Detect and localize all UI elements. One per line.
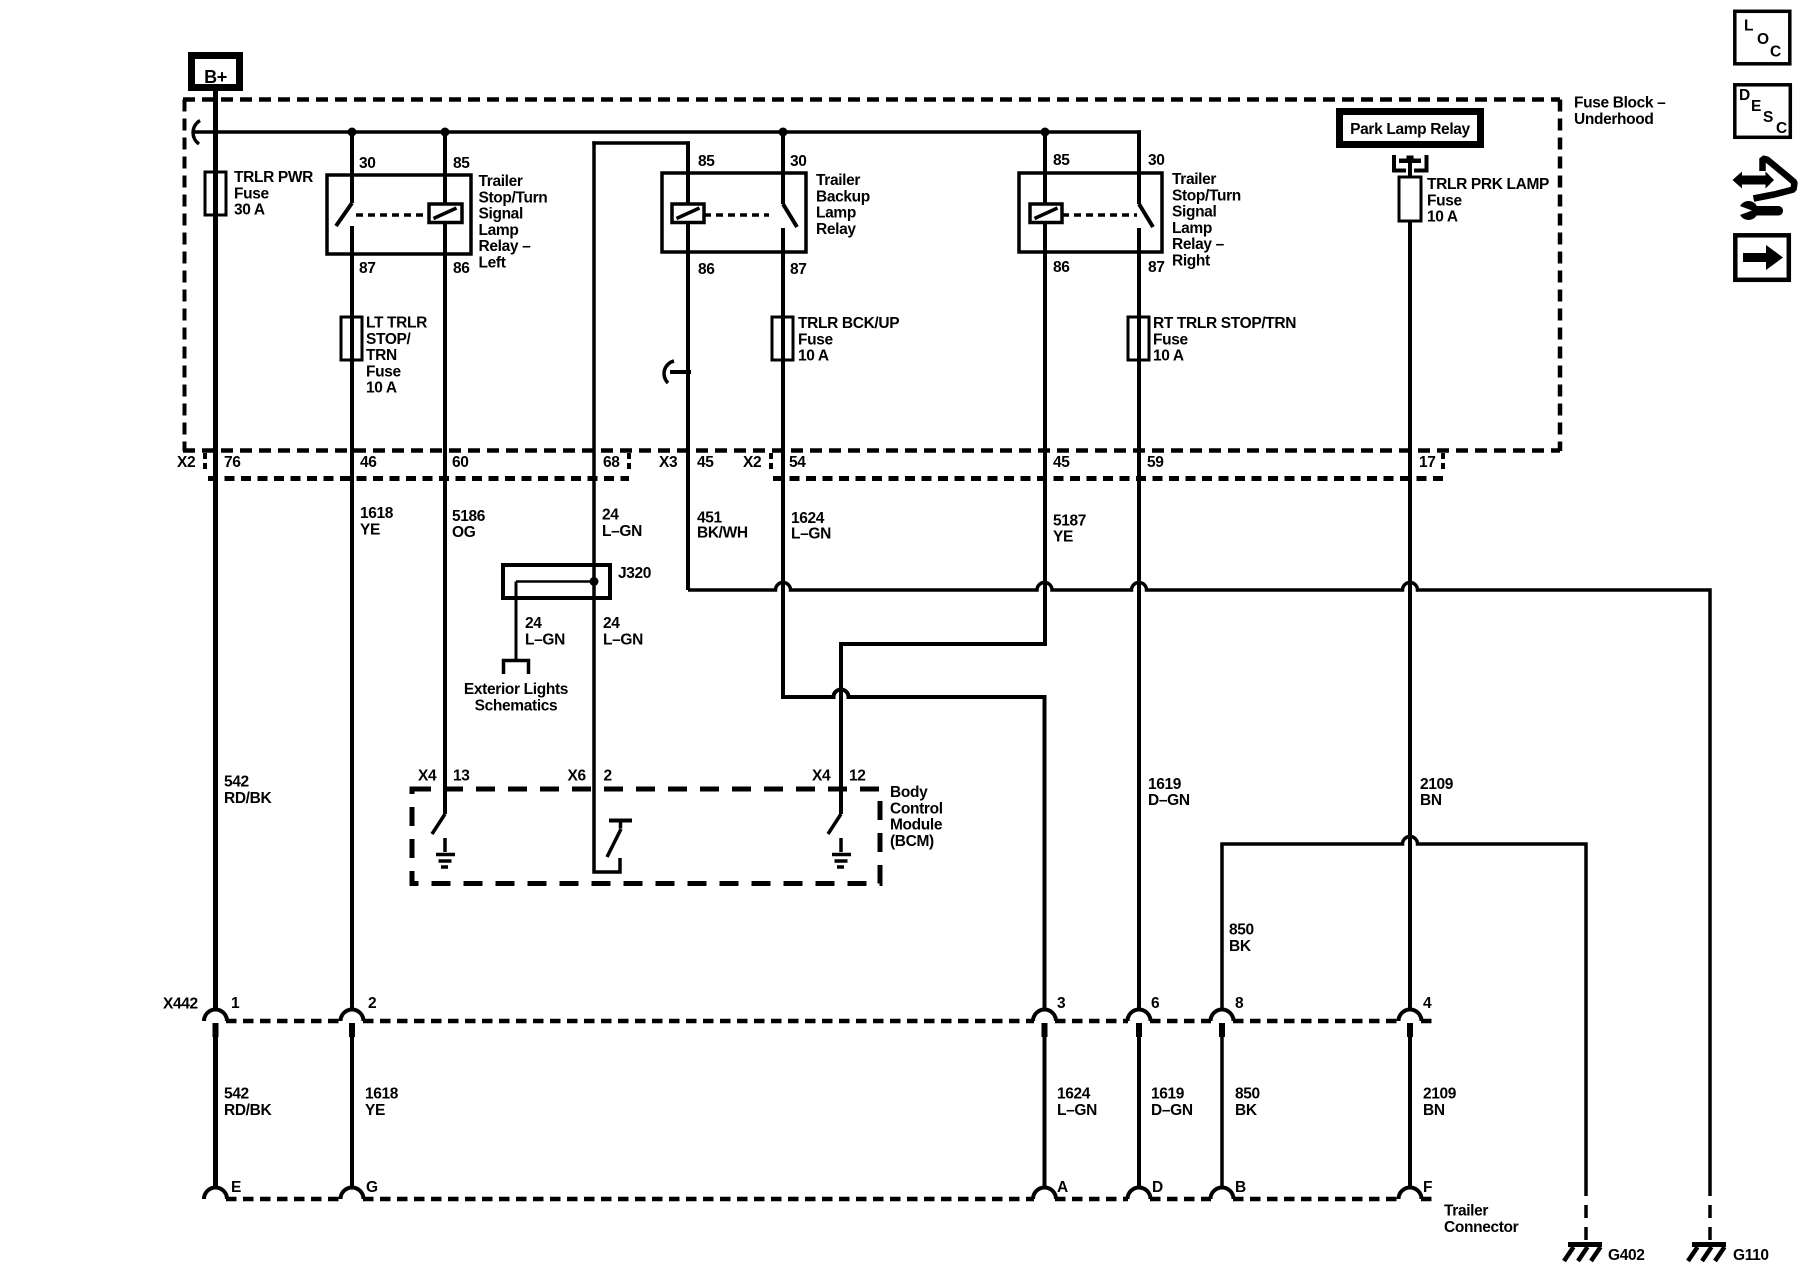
- svg-text:Fuse: Fuse: [798, 331, 834, 348]
- wire: J320 internal splice branch: [516, 580, 594, 583]
- svg-text:OG: OG: [452, 524, 476, 541]
- wire: backup relay pin 30 drop from bus: [781, 132, 785, 204]
- svg-text:G110: G110: [1733, 1247, 1769, 1264]
- svg-text:Right: Right: [1172, 253, 1210, 270]
- svg-text:TRN: TRN: [366, 347, 397, 364]
- svg-text:BK: BK: [1229, 938, 1252, 955]
- svg-text:Fuse: Fuse: [366, 363, 402, 380]
- connector X442 pin 4 arc: [1399, 1010, 1422, 1022]
- wire: 451 BK/WH horizontal run y=590 hopping 4 wires then down to G110: [688, 583, 1710, 1183]
- svg-text:A: A: [1057, 1179, 1068, 1196]
- svg-text:86: 86: [698, 261, 715, 278]
- svg-text:850: 850: [1229, 922, 1254, 939]
- svg-text:X4: X4: [418, 768, 437, 785]
- BCM internal switch at X4-13 blade: [432, 814, 445, 834]
- svg-text:1618: 1618: [360, 505, 394, 522]
- svg-text:13: 13: [453, 768, 470, 785]
- svg-text:30 A: 30 A: [234, 202, 265, 219]
- svg-text:24: 24: [602, 507, 619, 524]
- icon: next-page arrow glyph: [1743, 253, 1767, 262]
- wire: 1619 D-GN right relay pin 87 through fuse down to X442 pin 6: [1137, 228, 1141, 1010]
- svg-text:Stop/Turn: Stop/Turn: [1172, 187, 1241, 204]
- wire: 850 BK from corner right to G402, hop over 2109 BN: [1220, 837, 1586, 1183]
- connector X2 dotted row line left section: [208, 476, 629, 481]
- symbol: off-page fork to Exterior Lights Schematics: [504, 661, 529, 675]
- relay K2 dashed actuating link: [704, 213, 769, 217]
- svg-text:X442: X442: [163, 996, 198, 1013]
- svg-text:X2: X2: [177, 454, 195, 471]
- svg-text:Trailer: Trailer: [816, 172, 860, 189]
- trailer connector pin G arc: [341, 1188, 364, 1200]
- svg-text:Signal: Signal: [1172, 204, 1216, 221]
- svg-text:2: 2: [604, 768, 612, 785]
- svg-text:O: O: [1757, 31, 1769, 48]
- svg-text:Stop/Turn: Stop/Turn: [479, 189, 548, 206]
- wire: left relay pin 86 / 5186 OG down to BCM X4-13: [443, 221, 447, 814]
- relay K2 coil box on pin 85: [672, 204, 704, 223]
- fuse F1 TRLR PWR 30A body: [205, 172, 226, 215]
- relay K3 coil box on pin 85: [1030, 204, 1062, 223]
- svg-text:L–GN: L–GN: [525, 631, 565, 648]
- svg-text:30: 30: [790, 153, 807, 170]
- connector X2 separator after pin 17: [1441, 453, 1445, 473]
- svg-text:D–GN: D–GN: [1148, 792, 1190, 809]
- svg-text:Lamp: Lamp: [816, 205, 856, 222]
- svg-text:10 A: 10 A: [1427, 209, 1458, 226]
- relay K3 coil diagonal: [1035, 208, 1058, 219]
- wire: 850 BK down to X442 pin 8: [1220, 844, 1224, 1010]
- wire: left relay pin 85 drop from bus: [443, 132, 447, 205]
- svg-text:10 A: 10 A: [798, 348, 829, 365]
- svg-text:Left: Left: [479, 255, 506, 272]
- svg-text:24: 24: [525, 615, 542, 632]
- wire: left relay pin 87 / 1618 YE down through LT fuse to X442 pin 2: [350, 226, 354, 1010]
- relay K3 dashed actuating link: [1062, 213, 1137, 217]
- relay K1 coil diagonal: [434, 208, 457, 219]
- ground G110 chassis symbol: [1692, 1242, 1726, 1247]
- svg-text:G402: G402: [1608, 1247, 1645, 1264]
- svg-text:Trailer: Trailer: [479, 173, 523, 190]
- svg-text:Schematics: Schematics: [475, 697, 558, 714]
- svg-text:85: 85: [1053, 152, 1070, 169]
- svg-text:E: E: [231, 1179, 241, 1196]
- wire: 1619 D-GN from X442 pin 6 to trailer connector D: [1137, 1037, 1141, 1188]
- wire: left relay pin 30 drop from bus: [350, 132, 354, 203]
- svg-text:BK/WH: BK/WH: [697, 524, 748, 541]
- svg-text:F: F: [1423, 1179, 1432, 1196]
- relay K2 Trailer Backup Lamp Relay box: [662, 173, 806, 252]
- svg-text:C: C: [1776, 120, 1787, 137]
- wire: B+ feed 542 RD/BK vertical x=215: [213, 91, 218, 1010]
- symbol: take-out hook below backup relay pin 86: [670, 370, 691, 374]
- svg-text:Trailer: Trailer: [1172, 171, 1216, 188]
- trailer connector pin A arc: [1033, 1188, 1056, 1200]
- wire: main B+ bus y=132 from B+ to right relay pin 30: [194, 130, 1141, 134]
- power node B+ box: [192, 56, 240, 88]
- ground: BCM internal ground at X4-13: [436, 853, 455, 857]
- connector X2 separator after pin 68: [627, 453, 631, 473]
- trailer connector row dashed line: [226, 1197, 1434, 1202]
- svg-text:X6: X6: [568, 768, 587, 785]
- svg-text:Relay –: Relay –: [1172, 236, 1225, 253]
- svg-text:Trailer: Trailer: [1444, 1203, 1488, 1220]
- node: bus junction dot at backup relay pin 30: [779, 128, 788, 137]
- svg-text:STOP/: STOP/: [366, 331, 412, 348]
- wire: right relay pin 85 drop from bus: [1043, 132, 1047, 205]
- svg-text:Relay –: Relay –: [479, 238, 532, 255]
- svg-text:85: 85: [698, 153, 715, 170]
- svg-text:24: 24: [603, 615, 620, 632]
- BCM internal switch at X6-2 blade: [607, 829, 621, 857]
- ground: BCM internal ground at X4-12: [832, 853, 851, 857]
- node: bus junction dot at right relay pin 85: [1041, 128, 1050, 137]
- svg-text:Relay: Relay: [816, 221, 856, 238]
- svg-text:S: S: [1763, 109, 1773, 126]
- wire: park lamp relay output stem: [1408, 163, 1412, 177]
- module BCM dashed box: [412, 789, 880, 884]
- svg-text:RD/BK: RD/BK: [224, 1102, 272, 1119]
- svg-text:RD/BK: RD/BK: [224, 790, 272, 807]
- svg-text:RT TRLR STOP/TRN: RT TRLR STOP/TRN: [1153, 315, 1296, 332]
- symbol: park lamp relay socket bracket right: [1414, 155, 1427, 171]
- svg-text:Park Lamp Relay: Park Lamp Relay: [1350, 121, 1470, 138]
- svg-text:BK: BK: [1235, 1102, 1258, 1119]
- svg-text:76: 76: [224, 454, 241, 471]
- svg-text:Fuse: Fuse: [234, 185, 270, 202]
- svg-text:60: 60: [452, 454, 469, 471]
- svg-text:542: 542: [224, 1086, 249, 1103]
- wire: right relay pin 30 drop from bus corner: [1137, 130, 1141, 204]
- relay K3 switch blade pin30-pin87: [1139, 204, 1153, 227]
- wire: 2109 BN from X442 pin 4 to trailer connector F: [1408, 1037, 1412, 1188]
- splice J320 box: [503, 565, 610, 598]
- BCM internal switch at X4-13 contact stub: [443, 838, 447, 852]
- svg-text:1624: 1624: [1057, 1086, 1091, 1103]
- icon: double arrow of service icon: [1733, 172, 1775, 189]
- svg-text:87: 87: [790, 261, 807, 278]
- wire: backup relay pin 86 / 451 BK-WH down then right (wire A) with hops: [686, 221, 690, 590]
- node: bus junction dot at left relay pin 30: [348, 128, 357, 137]
- relay K2 switch blade pin30-pin87: [783, 204, 797, 227]
- wire: 1618 YE from X442 pin 2 to trailer connector G: [350, 1037, 354, 1188]
- fuse F5 TRLR PRK LAMP 10A body: [1399, 177, 1421, 221]
- svg-text:YE: YE: [365, 1102, 385, 1119]
- connector X2 separator before pin 54: [769, 453, 773, 473]
- wire: backup relay pin 85 drop from branch: [686, 141, 690, 205]
- svg-text:2: 2: [368, 995, 376, 1012]
- svg-text:1: 1: [231, 995, 240, 1012]
- svg-text:12: 12: [849, 768, 866, 785]
- svg-text:10 A: 10 A: [366, 380, 397, 397]
- svg-text:Fuse: Fuse: [1427, 192, 1463, 209]
- svg-text:2109: 2109: [1420, 776, 1454, 793]
- svg-text:87: 87: [359, 260, 376, 277]
- BCM internal switch at X4-12 contact stub: [839, 838, 843, 852]
- wire: 24 L-GN branch from J320 down to Exterior Lights Schematics: [515, 582, 518, 660]
- svg-text:L–GN: L–GN: [791, 525, 831, 542]
- svg-text:6: 6: [1151, 995, 1160, 1012]
- icon: LOC legend box: [1735, 11, 1790, 64]
- icon: DESC legend box: [1735, 85, 1791, 138]
- wire: 1624 L-GN from X442 pin 3 to trailer connector A: [1043, 1037, 1047, 1188]
- svg-text:LT TRLR: LT TRLR: [366, 315, 427, 332]
- svg-text:Module: Module: [890, 817, 943, 834]
- svg-text:TRLR PWR: TRLR PWR: [234, 169, 313, 186]
- wire: 1624 L-GN backup relay pin 87 through fuse down, right, down to X442 pin 3: [783, 228, 1045, 1010]
- svg-text:3: 3: [1057, 995, 1066, 1012]
- relay K1 switch blade pin30-pin87: [336, 203, 352, 226]
- relay K1 Trailer Stop/Turn Signal Lamp Relay - Left box: [327, 175, 471, 254]
- fuse block underhood dashed border bottom: [183, 448, 1560, 453]
- svg-text:(BCM): (BCM): [890, 833, 934, 850]
- svg-text:X2: X2: [743, 454, 761, 471]
- wire: 2109 BN through TRLR PRK LAMP fuse down to X442 pin 4: [1408, 221, 1412, 1010]
- svg-text:Underhood: Underhood: [1574, 111, 1654, 128]
- svg-text:Control: Control: [890, 800, 943, 817]
- svg-text:TRLR BCK/UP: TRLR BCK/UP: [798, 315, 899, 332]
- svg-text:Fuse Block –: Fuse Block –: [1574, 95, 1666, 112]
- wire: control branch y=143 from pin 68 riser to backup relay pin 85: [592, 141, 689, 145]
- svg-text:1619: 1619: [1151, 1086, 1185, 1103]
- svg-text:59: 59: [1147, 454, 1164, 471]
- fuse F2 LT TRLR STOP/TRN 10A body: [341, 317, 362, 360]
- svg-text:YE: YE: [1053, 528, 1073, 545]
- svg-text:BN: BN: [1420, 792, 1442, 809]
- svg-text:G: G: [366, 1179, 378, 1196]
- BCM internal switch at X4-12 blade: [828, 814, 841, 834]
- svg-text:D: D: [1739, 87, 1750, 104]
- svg-text:1624: 1624: [791, 510, 825, 527]
- trailer connector pin E arc: [204, 1188, 227, 1200]
- svg-text:B: B: [1235, 1179, 1246, 1196]
- svg-text:86: 86: [1053, 259, 1070, 276]
- svg-text:Lamp: Lamp: [1172, 220, 1212, 237]
- fuse block underhood dashed border top: [183, 97, 1560, 102]
- svg-text:85: 85: [453, 155, 470, 172]
- relay K1 coil box on pin 85: [429, 204, 462, 223]
- svg-text:30: 30: [1148, 152, 1165, 169]
- svg-text:1618: 1618: [365, 1086, 399, 1103]
- relay K2 coil diagonal: [677, 208, 700, 219]
- icon: curved arrow outline of service icon: [1754, 159, 1795, 199]
- wire: dashed ground lead into G402: [1584, 1183, 1588, 1241]
- svg-text:Backup: Backup: [816, 188, 870, 205]
- component: Park Lamp Relay labeled box: [1340, 112, 1481, 145]
- wire: 850 BK from X442 pin 8 to trailer connector B: [1220, 1037, 1224, 1188]
- trailer connector pin F arc: [1399, 1188, 1422, 1200]
- svg-text:10 A: 10 A: [1153, 348, 1184, 365]
- BCM internal switch at X6-2 T contact: [609, 819, 632, 823]
- svg-text:850: 850: [1235, 1086, 1260, 1103]
- trailer connector pin D arc: [1128, 1188, 1151, 1200]
- svg-text:45: 45: [1053, 454, 1070, 471]
- svg-text:X3: X3: [659, 454, 678, 471]
- connector X442 pin 2 arc: [341, 1010, 364, 1022]
- svg-text:5187: 5187: [1053, 512, 1086, 529]
- relay K1 dashed actuating link: [356, 213, 429, 217]
- svg-text:L: L: [1744, 18, 1753, 35]
- svg-text:E: E: [1751, 98, 1761, 115]
- svg-text:C: C: [1770, 44, 1781, 61]
- svg-text:Exterior Lights: Exterior Lights: [464, 681, 568, 698]
- connector X2 separator before pin 76: [203, 453, 207, 473]
- svg-text:5186: 5186: [452, 508, 486, 525]
- svg-text:17: 17: [1419, 454, 1436, 471]
- icon: wrench of service icon: [1739, 201, 1758, 220]
- svg-text:45: 45: [697, 454, 714, 471]
- fuse block underhood dashed border left: [183, 100, 187, 452]
- wire: 542 RD/BK from X442 pin 1 to trailer connector E: [213, 1037, 218, 1188]
- svg-text:YE: YE: [360, 521, 380, 538]
- svg-text:54: 54: [789, 454, 806, 471]
- svg-text:46: 46: [360, 454, 377, 471]
- svg-text:542: 542: [224, 774, 249, 791]
- svg-text:L–GN: L–GN: [603, 631, 643, 648]
- svg-text:30: 30: [359, 155, 376, 172]
- relay K3 Trailer Stop/Turn Signal Lamp Relay - Right box: [1019, 173, 1162, 252]
- connector X442 row dashed line: [226, 1019, 1434, 1024]
- wire: right relay pin 86 / 5187 YE down, left, down to BCM X4-12: [841, 221, 1045, 814]
- symbol: take-out hook at B+ bus junction: [193, 121, 200, 145]
- svg-text:86: 86: [453, 260, 470, 277]
- svg-text:1619: 1619: [1148, 776, 1182, 793]
- fuse F3 TRLR BCK/UP 10A body: [772, 317, 793, 360]
- connector X442 pin 6 arc: [1128, 1010, 1151, 1022]
- svg-text:TRLR PRK LAMP: TRLR PRK LAMP: [1427, 176, 1549, 193]
- svg-text:68: 68: [603, 454, 620, 471]
- connector X442 pin 1 arc: [204, 1010, 227, 1022]
- svg-text:Body: Body: [890, 784, 928, 801]
- svg-text:L–GN: L–GN: [1057, 1102, 1097, 1119]
- svg-text:D–GN: D–GN: [1151, 1102, 1193, 1119]
- node: bus junction dot at left relay pin 85: [441, 128, 450, 137]
- svg-text:J320: J320: [618, 565, 651, 582]
- svg-text:Connector: Connector: [1444, 1219, 1519, 1236]
- fuse block underhood dashed border right: [1558, 100, 1563, 452]
- wire: 24 L-GN riser pin 68 through J320 to BCM X6-2: [594, 141, 620, 872]
- svg-text:BN: BN: [1423, 1102, 1445, 1119]
- wire: dashed ground lead into G110: [1708, 1183, 1712, 1241]
- svg-text:87: 87: [1148, 259, 1165, 276]
- svg-text:X4: X4: [812, 768, 831, 785]
- svg-text:L–GN: L–GN: [602, 523, 642, 540]
- symbol: park lamp relay plug T-bar: [1399, 159, 1421, 164]
- connector X442 pin 8 arc: [1211, 1010, 1234, 1022]
- icon: next-page arrow box: [1735, 235, 1789, 279]
- svg-text:4: 4: [1423, 995, 1432, 1012]
- svg-text:Signal: Signal: [479, 206, 523, 223]
- trailer connector pin B arc: [1211, 1188, 1234, 1200]
- symbol: park lamp relay socket bracket left: [1394, 155, 1406, 171]
- svg-text:8: 8: [1235, 995, 1244, 1012]
- svg-text:Fuse: Fuse: [1153, 331, 1189, 348]
- node: J320 splice dot: [590, 577, 599, 586]
- connector X442 pin 3 arc: [1033, 1010, 1056, 1022]
- svg-text:2109: 2109: [1423, 1086, 1457, 1103]
- svg-text:B+: B+: [204, 67, 227, 87]
- ground G402 chassis symbol: [1568, 1242, 1602, 1247]
- connector X2 dotted row line right section: [773, 476, 1443, 481]
- svg-text:Lamp: Lamp: [479, 222, 519, 239]
- svg-text:D: D: [1152, 1179, 1163, 1196]
- fuse F4 RT TRLR STOP/TRN 10A body: [1128, 317, 1149, 360]
